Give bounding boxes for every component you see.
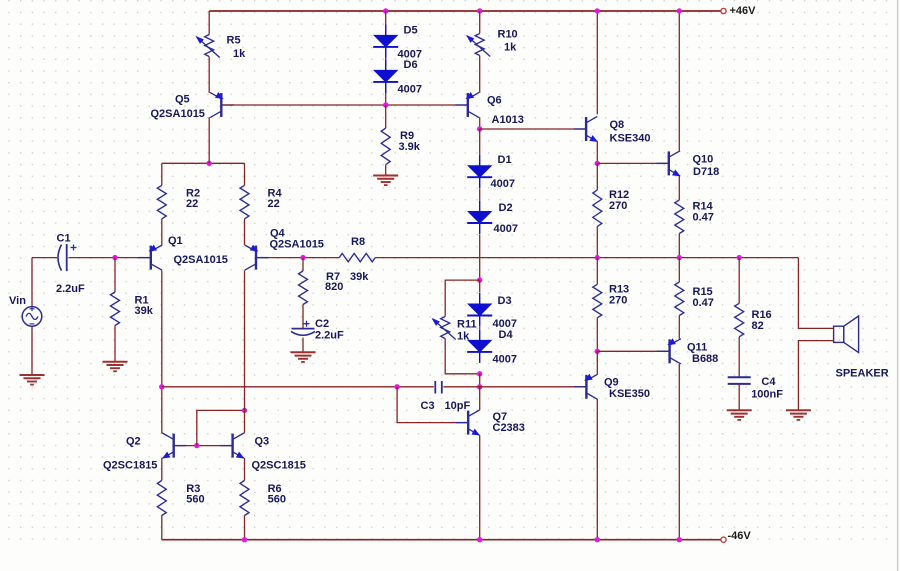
wire R4 bottom to Q4 emitter: [244, 219, 246, 245]
wire Q5 emitter up: [208, 57, 210, 93]
wire R13 top lead: [596, 258, 598, 285]
svg-text:R8: R8: [351, 236, 365, 248]
svg-text:1k: 1k: [504, 41, 517, 53]
wire R15 top lead: [678, 258, 680, 282]
transistor Q1: [138, 257, 151, 259]
transistor Q10: [656, 162, 669, 164]
svg-text:KSE340: KSE340: [610, 132, 651, 144]
wire Q11 collector down: [678, 364, 680, 540]
wire Q7 emitter down: [479, 435, 481, 540]
diode D1: [479, 155, 481, 189]
svg-text:D6: D6: [404, 59, 418, 71]
svg-text:Q2: Q2: [126, 435, 141, 447]
svg-text:560: 560: [186, 493, 204, 505]
svg-text:270: 270: [609, 200, 627, 212]
svg-text:22: 22: [268, 198, 280, 210]
transistor Q11: [657, 350, 670, 352]
node Q9 rail junction: [595, 537, 600, 542]
svg-text:0.47: 0.47: [693, 211, 714, 223]
speaker SPEAKER: [834, 326, 844, 342]
wire R2 top lead: [161, 163, 163, 185]
wire R9 to ground: [385, 165, 387, 176]
svg-text:22: 22: [186, 198, 198, 210]
resistor R1: [111, 292, 120, 326]
node bias chain top junction: [477, 277, 482, 282]
wire D1 lead: [479, 129, 481, 155]
svg-text:D3: D3: [498, 295, 512, 307]
wire D5-D6 column: [385, 11, 387, 105]
transistor Q2: [174, 445, 187, 447]
resistor R9: [381, 128, 390, 165]
wire Q1 collector down to Q2: [161, 271, 163, 434]
wire feedback rail: [375, 257, 798, 259]
node R16 output junction: [737, 255, 742, 260]
svg-text:C4: C4: [761, 376, 776, 388]
svg-text:Q2SC1815: Q2SC1815: [103, 459, 157, 471]
svg-text:4007: 4007: [491, 178, 515, 190]
node Q11 rail junction: [677, 537, 682, 542]
wire Q2 emitter to R3: [161, 458, 163, 481]
svg-text:R10: R10: [498, 28, 518, 40]
wire VAS node horizontal: [162, 386, 434, 388]
node Q8 emitter junction: [595, 161, 600, 166]
svg-text:C1: C1: [57, 232, 71, 244]
ground below Vin: [20, 374, 45, 376]
svg-text:R11: R11: [457, 318, 477, 330]
wire Q3 emitter to R6: [244, 458, 246, 481]
svg-text:100nF: 100nF: [751, 388, 783, 400]
potentiometer R11: [441, 317, 450, 339]
svg-text:560: 560: [268, 493, 286, 505]
wire VAS node to Q9 base: [480, 386, 587, 388]
ground below C4: [727, 409, 752, 411]
node R6 rail junction: [242, 537, 247, 542]
wire chain bottom to VAS node: [479, 374, 481, 387]
node R14 output junction: [677, 255, 682, 260]
wire R13 bottom lead: [596, 318, 598, 352]
node VAS output junction: [477, 384, 482, 389]
capacitor C2: [292, 328, 315, 330]
wire R7 to C2: [302, 305, 304, 329]
wire R15 to Q11 emitter: [678, 316, 680, 339]
svg-text:270: 270: [609, 294, 627, 306]
svg-text:39k: 39k: [135, 305, 154, 317]
wire Q8 emitter to Q10 base: [597, 162, 669, 164]
wire D2 down across feedback rail: [479, 235, 481, 281]
wire Q9 collector down: [596, 399, 598, 539]
wire Q6 to Q8 base: [480, 128, 586, 130]
wire R10 top lead: [479, 11, 481, 34]
wire R10 to Q6 emitter: [479, 56, 481, 93]
svg-text:C3: C3: [421, 400, 435, 412]
wire R12 top lead: [596, 163, 598, 190]
wire Q6 collector down: [479, 117, 481, 129]
wire Q9 emitter node to Q11 base: [597, 350, 669, 352]
svg-text:Q10: Q10: [693, 153, 714, 165]
wire mirror base to Q3 collector: [197, 410, 245, 445]
wire Vin vertical: [31, 258, 33, 307]
transistor Q6: [455, 104, 468, 106]
wire Q8 collector column: [596, 11, 598, 114]
wire D3 lead: [479, 280, 481, 292]
transistor Q9: [574, 386, 587, 388]
diode D6: [385, 59, 387, 93]
svg-text:82: 82: [752, 320, 764, 332]
wire Q8 emitter down: [596, 142, 598, 164]
wire Q4 base right segment: [256, 257, 339, 259]
ground below speaker: [786, 409, 811, 411]
svg-text:-46V: -46V: [728, 530, 752, 542]
terminal -46V: [721, 537, 726, 542]
wire D3-D4 link: [479, 327, 481, 329]
resistor R8: [339, 253, 375, 261]
wire R16 top lead: [738, 258, 740, 304]
resistor R7: [299, 271, 308, 305]
diode D2: [479, 201, 481, 235]
node R7/R8 junction: [300, 255, 305, 260]
svg-text:Q2SC1815: Q2SC1815: [252, 459, 306, 471]
svg-text:D2: D2: [499, 202, 513, 214]
resistor R15: [675, 282, 684, 316]
diode D4: [479, 329, 481, 363]
node C1/R1 junction: [112, 255, 117, 260]
wire R11 branch bottom: [445, 339, 480, 374]
node D5 rail junction: [383, 8, 388, 13]
wire R7 top lead: [302, 258, 304, 271]
wire bottom -46V rail: [162, 539, 722, 541]
wire Q9 emitter up lead: [596, 351, 598, 374]
resistor R13: [593, 284, 602, 318]
wire R6 to rail: [244, 516, 246, 540]
capacitor C3: [434, 381, 436, 394]
wire C4 to ground: [738, 384, 740, 410]
svg-text:Q5: Q5: [175, 93, 190, 105]
svg-text:Q3: Q3: [255, 435, 270, 447]
wire Q7 base branch: [397, 387, 468, 423]
wire R12 bottom lead: [596, 227, 598, 258]
resistor R2: [157, 185, 166, 219]
node Q7 rail junction: [477, 537, 482, 542]
svg-text:4007: 4007: [493, 353, 517, 365]
ground below R9: [373, 175, 398, 177]
svg-text:4007: 4007: [398, 83, 422, 95]
node Q8 rail junction: [595, 8, 600, 13]
svg-text:Q2SA1015: Q2SA1015: [151, 108, 205, 120]
node R12 output junction: [595, 255, 600, 260]
wire Q10 emitter to R14: [678, 176, 680, 200]
svg-text:3.9k: 3.9k: [399, 141, 421, 153]
node bias chain bottom junction: [477, 371, 482, 376]
node Q10 rail junction: [677, 8, 682, 13]
node Q1-Q2 collector / VAS wire junction: [159, 384, 164, 389]
transistor Q4: [256, 257, 269, 259]
wire Q7 collector up: [479, 387, 481, 410]
svg-text:Q2SA1015: Q2SA1015: [270, 238, 324, 250]
svg-text:Q1: Q1: [168, 235, 183, 247]
svg-text:2.2uF: 2.2uF: [56, 283, 85, 295]
AC source Vin: [22, 307, 42, 327]
svg-text:2.2uF: 2.2uF: [315, 329, 344, 341]
svg-text:D5: D5: [404, 24, 418, 36]
wire C2 to ground: [302, 338, 304, 353]
svg-text:D4: D4: [499, 329, 514, 341]
resistor R4: [240, 185, 249, 219]
node mirror base junction: [194, 443, 199, 448]
svg-text:KSE350: KSE350: [609, 388, 650, 400]
svg-text:Q11: Q11: [687, 341, 707, 353]
svg-text:SPEAKER: SPEAKER: [836, 367, 889, 379]
wire Q4 collector down to Q3: [244, 271, 246, 434]
wire C3 right lead: [443, 386, 479, 388]
wire R16 to C4: [738, 337, 740, 378]
svg-text:D718: D718: [693, 166, 719, 178]
transistor Q8: [574, 128, 587, 130]
transistor Q5: [221, 104, 234, 106]
svg-text:+46V: +46V: [730, 5, 757, 17]
wire R4 top lead: [244, 163, 246, 185]
svg-text:4007: 4007: [494, 223, 518, 235]
wire speaker return: [798, 341, 833, 411]
ground below R1: [103, 361, 128, 363]
wire Q5 collector down: [208, 117, 210, 163]
resistor R3: [157, 481, 166, 516]
ground below C2: [291, 351, 316, 353]
transistor Q7: [456, 422, 469, 424]
svg-text:820: 820: [325, 281, 343, 293]
wire D1-D2 link: [479, 189, 481, 201]
potentiometer R10: [475, 34, 484, 56]
wire R5 top lead: [208, 11, 210, 35]
terminal +46V: [721, 8, 726, 13]
svg-text:C2: C2: [315, 318, 329, 330]
svg-text:Vin: Vin: [9, 295, 26, 307]
resistor R14: [675, 200, 684, 234]
node Q5 collector junction: [207, 161, 212, 166]
resistor R6: [240, 481, 249, 516]
node Q6 collector junction: [477, 126, 482, 131]
wire Q5 base to Q6 base: [221, 104, 467, 106]
node Q9 emitter junction: [595, 349, 600, 354]
svg-text:R5: R5: [227, 34, 241, 46]
wire R2-R4 top link: [162, 162, 245, 164]
diode D3: [479, 293, 481, 327]
diode D5: [385, 24, 387, 58]
wire Q2-Q3 base link: [174, 445, 233, 447]
transistor Q3: [220, 445, 233, 447]
svg-text:B688: B688: [692, 353, 718, 365]
potentiometer R5: [205, 35, 214, 57]
wire output to speaker: [798, 258, 833, 329]
node Q3/Q4 collector junction: [242, 408, 247, 413]
svg-text:D1: D1: [498, 154, 512, 166]
svg-text:39k: 39k: [350, 271, 369, 283]
wire top +46V rail: [209, 10, 721, 12]
wire R3 to rail: [161, 516, 163, 540]
svg-text:C2383: C2383: [493, 422, 525, 434]
svg-text:0.47: 0.47: [693, 297, 714, 309]
wire R1 lead bottom: [114, 326, 116, 362]
capacitor C1: [58, 245, 62, 271]
wire R11 branch: [445, 280, 480, 316]
svg-text:10pF: 10pF: [445, 400, 471, 412]
wire Q10 collector up: [678, 11, 680, 151]
svg-text:Q8: Q8: [610, 119, 625, 131]
svg-text:Q2SA1015: Q2SA1015: [174, 254, 228, 266]
resistor R12: [593, 190, 602, 227]
wire R1 lead top: [114, 258, 116, 292]
svg-text:1k: 1k: [233, 48, 246, 60]
capacitor C4: [728, 376, 751, 378]
canvas right border: [897, 0, 899, 571]
svg-text:A1013: A1013: [492, 114, 524, 126]
wire Q1 emitter up: [161, 219, 163, 245]
wire R14 bottom lead: [678, 234, 680, 258]
resistor R16: [735, 303, 744, 337]
node R10 rail junction: [477, 8, 482, 13]
node R9 junction: [383, 102, 388, 107]
wire input rail left segment: [32, 257, 57, 259]
svg-text:Q6: Q6: [487, 94, 502, 106]
wire R9 top lead: [385, 105, 387, 128]
svg-text:Q9: Q9: [604, 376, 619, 388]
node C3 tap junction: [394, 384, 399, 389]
